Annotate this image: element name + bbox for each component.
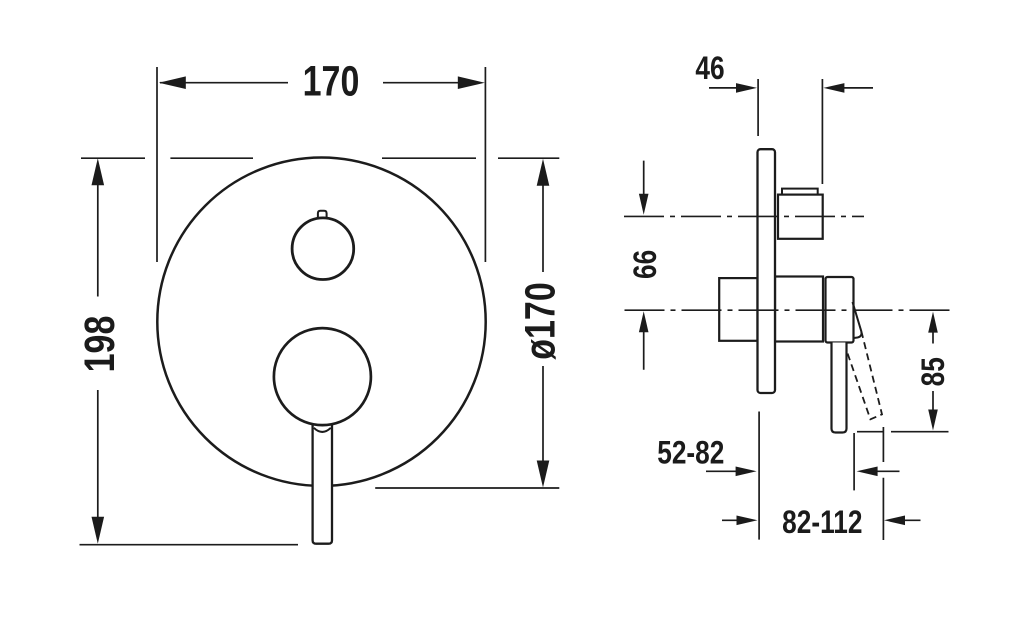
front view: plate circle [157, 158, 485, 486]
svg-text:170: 170 [303, 58, 360, 105]
dimension 46 line [709, 87, 873, 89]
side view: handle stem [832, 343, 847, 433]
side view: tilted lever dashed outline [848, 332, 882, 420]
svg-text:66: 66 [629, 250, 664, 279]
dimension 82-112 line [722, 519, 921, 521]
extension line: 46 right (cartridge rear) [821, 79, 823, 184]
extension line: plate face vertical A [758, 412, 760, 540]
extension line: 170 left tangent [156, 67, 158, 262]
arrowhead 46 left [736, 83, 757, 93]
svg-text:ø170: ø170 [517, 282, 564, 359]
side view: wall plate [758, 149, 776, 393]
side view: cartridge body [778, 195, 823, 239]
side view: valve body middle box [775, 277, 823, 342]
svg-text:85: 85 [917, 357, 952, 386]
extension line: lever bottom horizontal (85) [857, 431, 949, 433]
side view: valve body left box [719, 278, 757, 341]
arrowhead ø170 bottom [537, 461, 550, 488]
front view: handle hub circle [274, 328, 371, 425]
center line lower (valve axis) [625, 309, 950, 311]
svg-text:46: 46 [695, 52, 724, 87]
arrowhead 52-82 [736, 467, 757, 477]
extension line: circle bottom tangent horizontal [375, 487, 559, 489]
arrowhead 198 top [92, 158, 105, 185]
front view: handle lever bar [313, 416, 332, 544]
arrowhead 66 bottom [639, 311, 649, 332]
dimension 170 line [160, 82, 458, 84]
side view: lever pivot wedge [853, 302, 862, 338]
extension line: handle stem vertical B [853, 433, 855, 490]
side view: cartridge lip [782, 189, 818, 195]
extension line: circle top tangent horizontal [81, 157, 559, 159]
arrowhead 82-112 right [884, 516, 905, 526]
side view: handle cap box [826, 277, 854, 343]
arrowhead ø170 top [537, 159, 550, 186]
arrowhead 82-112 left [737, 516, 758, 526]
arrowhead 85 bottom [928, 410, 938, 431]
dimension 66 line [643, 161, 645, 370]
center line upper (cartridge axis) [624, 215, 864, 217]
svg-text:52-82: 52-82 [657, 436, 724, 471]
svg-text:198: 198 [76, 316, 123, 373]
extension line: 170 right tangent [484, 67, 486, 262]
dimension 85 line [932, 332, 934, 410]
arrowhead 170 right [458, 76, 485, 89]
arrowhead 46 right [823, 83, 844, 93]
front view: diverter button circle [292, 218, 354, 280]
front view: lever top cap arc [314, 428, 331, 432]
extension line: tilted lever end vertical C [882, 427, 884, 540]
front view: diverter button tab [318, 211, 327, 223]
dimension 198 line [97, 184, 99, 518]
svg-text:82-112: 82-112 [782, 506, 862, 541]
arrowhead 198 bottom [92, 517, 105, 544]
arrowhead 170 left [159, 76, 186, 89]
arrowhead 85 top [928, 312, 938, 333]
arrowhead 52-82 opposing [857, 467, 878, 477]
arrowhead 66 top [639, 194, 649, 215]
extension line: handle bottom horizontal [80, 544, 299, 546]
dimension 52-82 line [706, 470, 900, 472]
extension line: 46 left (plate front) [757, 79, 759, 136]
dimension ø170 line [542, 185, 544, 462]
